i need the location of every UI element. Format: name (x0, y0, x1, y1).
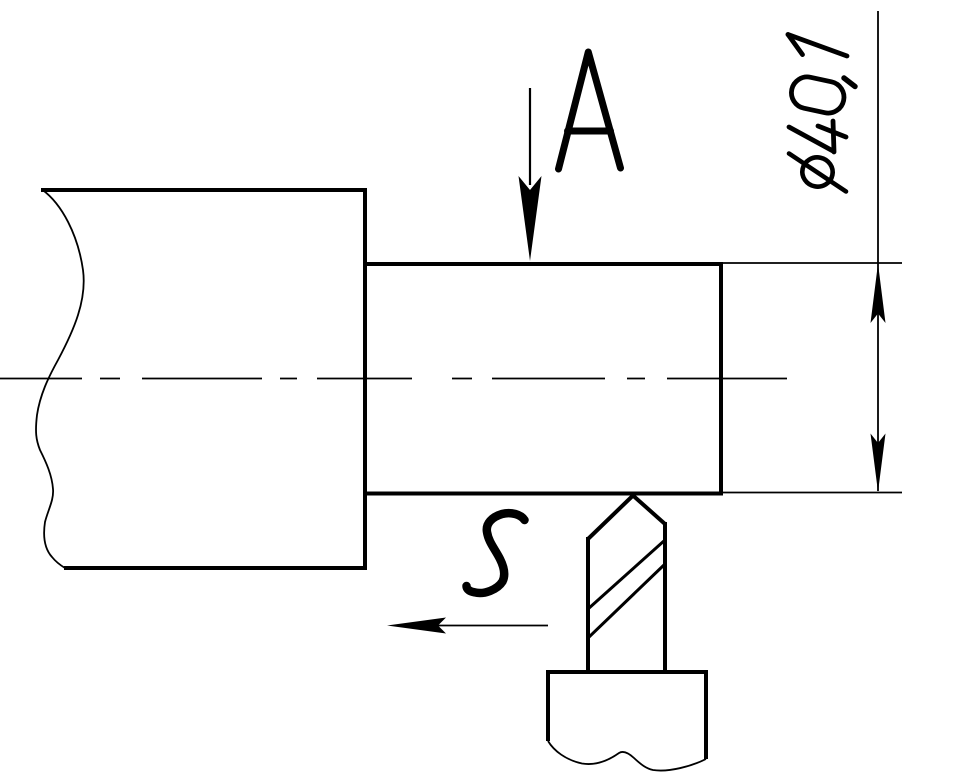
workpiece break line (wavy left edge) (36, 190, 84, 569)
tool holder left edge (546, 670, 550, 741)
dimension text ø40,1 : glyph ø ellipse (800, 155, 836, 190)
dimension line vertical (877, 11, 879, 491)
tool holder right edge (704, 670, 708, 759)
dimension text glyph 4 (789, 121, 846, 152)
shaft top edge (363, 262, 721, 266)
dimension extension line bottom (721, 492, 902, 494)
workpiece block bottom edge (64, 566, 367, 570)
workpiece block top edge (41, 188, 365, 192)
view arrow A head (519, 176, 542, 261)
tool tip and flank edges (588, 496, 665, 540)
centerline (axis) (0, 378, 787, 380)
dimension text ø slash (789, 154, 846, 192)
tool holder break line (wavy bottom) (548, 741, 706, 771)
label A (559, 52, 621, 169)
tool left edge (586, 537, 590, 670)
dimension text comma (844, 78, 855, 87)
tool flute line 1 (588, 540, 665, 609)
workpiece block right edge (363, 188, 367, 570)
feed arrow head (387, 618, 446, 634)
feed arrow leader line (438, 625, 548, 627)
shaft right edge (719, 262, 723, 496)
tool flute line 2 (588, 564, 665, 638)
tool holder top edge (546, 670, 708, 674)
dimension arrowhead up (871, 264, 886, 324)
tool right edge (663, 522, 667, 670)
feed label S (467, 513, 525, 593)
dimension text glyph 1 (788, 35, 847, 57)
dimension extension line top (721, 262, 902, 264)
dimension text glyph 0 (788, 74, 846, 116)
view arrow A leader line (529, 88, 531, 185)
shaft bottom edge (363, 492, 721, 496)
dimension arrowhead down (871, 434, 886, 493)
